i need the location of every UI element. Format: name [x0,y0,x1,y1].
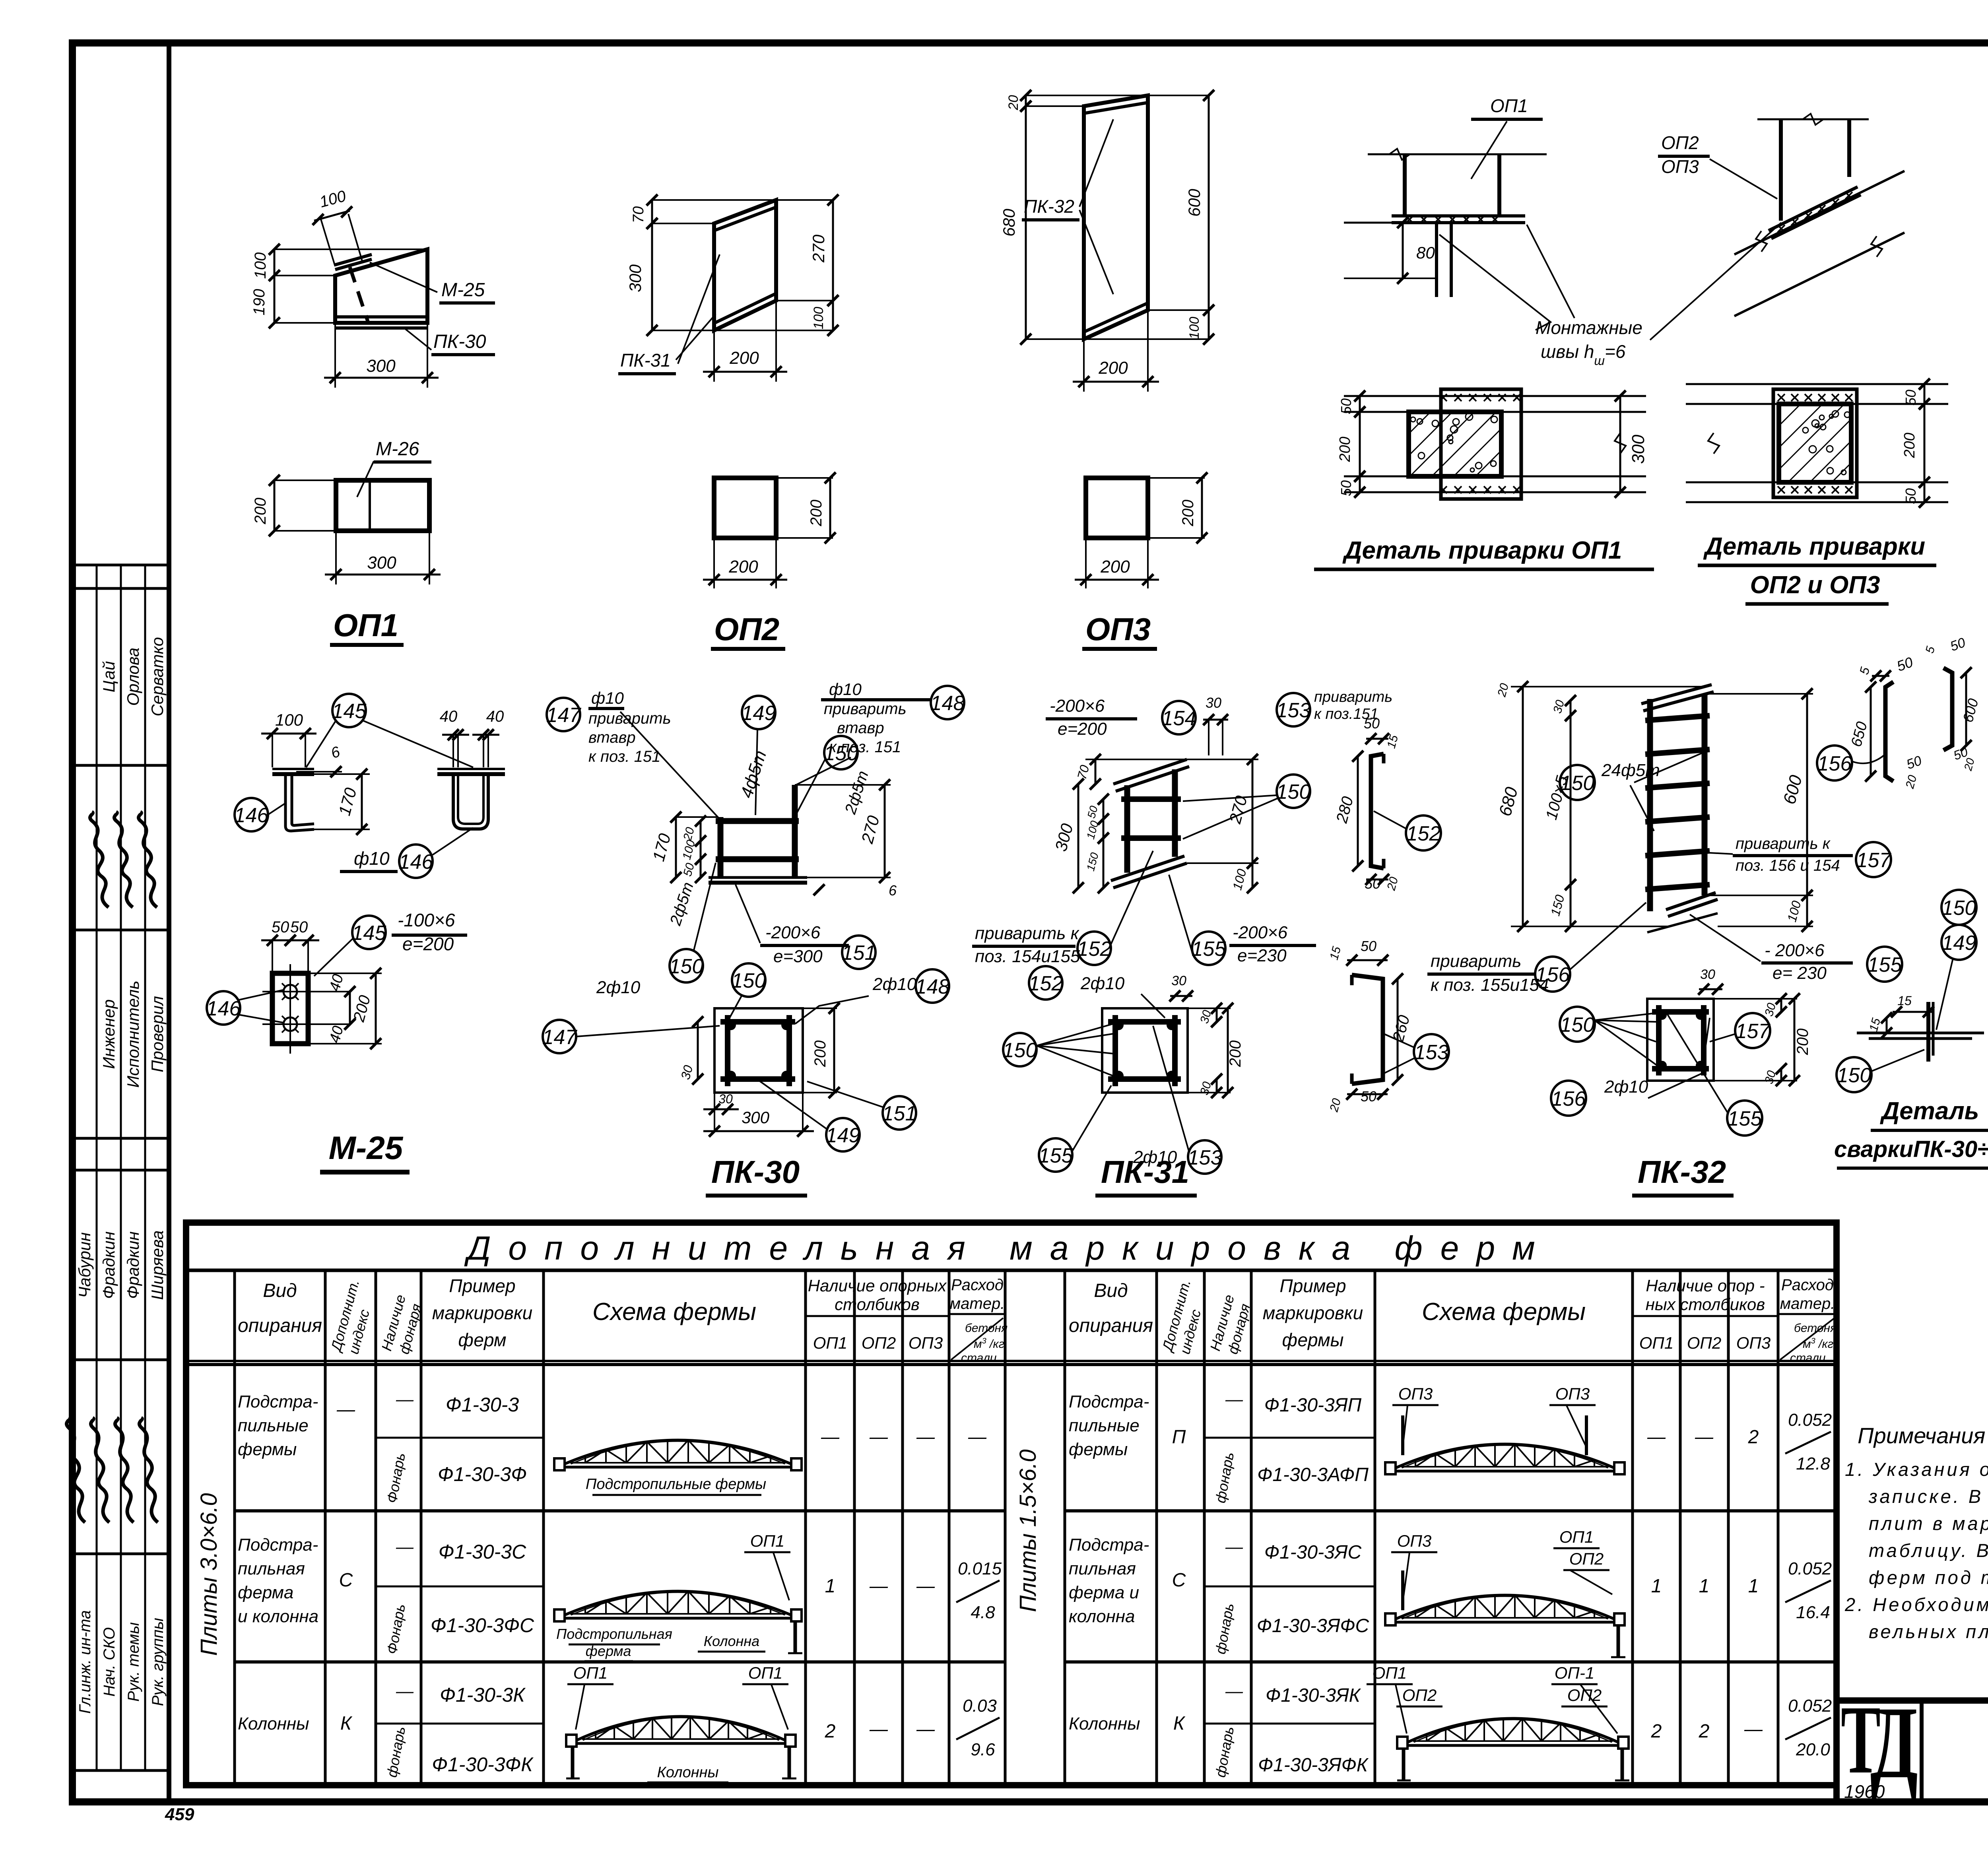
svg-text:147: 147 [542,1026,578,1049]
svg-text:поз. 156 и 154: поз. 156 и 154 [1736,857,1840,874]
svg-text:ферма: ферма [238,1583,293,1602]
label М-25 [370,262,437,292]
left strip cells [72,564,169,567]
svg-text:20: 20 [1006,95,1021,111]
svg-text:колонна: колонна [1069,1607,1135,1626]
svg-text:30: 30 [1171,973,1186,988]
svg-text:146: 146 [234,804,269,827]
svg-text:ОП1: ОП1 [1490,95,1528,116]
svg-text:С: С [1172,1570,1186,1591]
svg-text:156: 156 [1536,963,1570,986]
svg-text:e=230: e=230 [1237,946,1287,965]
ПК-31 plan callouts [1029,966,1062,1000]
svg-text:50: 50 [1903,488,1919,504]
svg-text:ОП3: ОП3 [1085,611,1151,647]
svg-text:150: 150 [824,742,858,765]
svg-text:e=300: e=300 [773,947,823,966]
svg-text:0.03: 0.03 [963,1696,997,1716]
svg-text:200: 200 [1794,1029,1811,1056]
svg-text:Ф1-30-3ФК: Ф1-30-3ФК [432,1753,534,1776]
svg-text:Монтажные: Монтажные [1536,317,1642,338]
svg-text:ОП3: ОП3 [909,1334,943,1352]
dim 100 М-25 [261,733,316,735]
svg-text:Наличие опорных: Наличие опорных [808,1276,947,1295]
svg-text:0.015: 0.015 [958,1559,1002,1578]
svg-text:156: 156 [1817,752,1852,775]
svg-text:150: 150 [1560,772,1595,795]
svg-text:—: — [1744,1718,1763,1739]
svg-text:200: 200 [729,348,759,368]
svg-text:300: 300 [367,553,396,573]
svg-text:Вид: Вид [1094,1280,1128,1301]
svg-text:50: 50 [1361,938,1376,954]
ПК-32 dims left [1511,686,1702,687]
svg-text:Ф1-30-3: Ф1-30-3 [446,1394,519,1416]
svg-text:ПК-31: ПК-31 [1101,1154,1189,1190]
truss schematic [565,1617,791,1620]
svg-text:2: 2 [825,1721,836,1742]
svg-text:1: 1 [1699,1576,1710,1597]
М-25 right U-figure [437,768,505,770]
svg-text:1: 1 [1651,1576,1662,1597]
svg-text:ф10: ф10 [354,848,390,869]
svg-text:ОП3: ОП3 [1555,1384,1590,1403]
dims right ОП3 [1148,95,1209,96]
svg-text:1. Указания об основной маркир: 1. Указания об основной маркировке ферм … [1845,1459,1988,1480]
svg-text:—: — [821,1426,840,1447]
svg-text:9.6: 9.6 [971,1740,995,1759]
svg-text:ф10: ф10 [829,680,862,699]
svg-text:- 200×6: - 200×6 [1765,941,1825,960]
svg-text:146: 146 [206,997,241,1020]
ПК-32 plan callouts [1560,1007,1595,1042]
svg-text:4.8: 4.8 [971,1603,995,1622]
svg-text:155: 155 [1728,1107,1763,1130]
ПК-32 plan dims [1699,988,1722,990]
svg-text:2ф10: 2ф10 [1080,974,1125,993]
callout 145 plate [352,916,386,949]
figure ОП2 square [714,478,776,538]
svg-text:ПК-30: ПК-30 [711,1154,800,1190]
ПК-31 callout 150 [1277,775,1310,808]
plate under ОП1 elevation [1392,214,1525,217]
svg-text:Ф1-30-3ЯП: Ф1-30-3ЯП [1264,1395,1362,1416]
svg-text:150: 150 [1003,1039,1037,1062]
svg-text:150: 150 [1276,780,1311,804]
svg-text:Колонны: Колонны [1069,1714,1140,1734]
svg-text:50: 50 [1361,1088,1376,1105]
figure ОП2 parallelogram ПК-31 [714,200,776,330]
ПК-32 ladder cage [1647,699,1653,911]
svg-text:—: — [1225,1537,1243,1557]
svg-text:100: 100 [811,307,826,330]
svg-text:опирания: опирания [238,1315,322,1336]
dims ОП3 square [1148,477,1205,479]
figure ОП1 trapezoid М-25/ПК-30 [335,249,427,323]
svg-text:Примечания: Примечания [1858,1423,1985,1448]
ПК-30 cage elevation [792,785,798,877]
ПК-30 plan dims [697,1022,699,1079]
svg-text:ОП3: ОП3 [1736,1334,1771,1352]
svg-text:Чабурин: Чабурин [75,1232,94,1298]
svg-text:ОП2: ОП2 [1569,1549,1604,1568]
svg-text:Ф1-30-3ЯС: Ф1-30-3ЯС [1264,1542,1362,1563]
callout 146 М-25 left [235,798,268,831]
dim 100 slanted ОП1 [314,211,350,221]
ПК-30 callout 149 [742,696,775,729]
svg-text:маркировки: маркировки [432,1303,532,1323]
svg-text:—: — [869,1718,888,1739]
ПК-31 155 plate label [1192,932,1225,965]
svg-text:152: 152 [1077,938,1112,961]
svg-text:ОП2: ОП2 [714,611,779,647]
figure ОП3 tall parallelogram ПК-32 [1084,95,1148,339]
svg-text:ОП1: ОП1 [573,1664,608,1682]
svg-text:Подстра-: Подстра- [1069,1392,1149,1411]
svg-text:12.8: 12.8 [1796,1454,1830,1473]
svg-text:ОП1: ОП1 [333,608,398,643]
svg-text:пильные: пильные [238,1416,309,1435]
svg-text:156: 156 [1551,1087,1586,1110]
svg-text:—: — [396,1390,414,1409]
svg-text:200: 200 [812,1041,829,1068]
svg-text:100: 100 [252,252,269,279]
svg-text:—: — [1225,1390,1243,1409]
svg-text:149: 149 [826,1124,860,1147]
ПК-32 channel 157 section [1943,668,1952,750]
ПК-32 callout 150 24ф5т [1560,765,1595,800]
svg-text:Ф1-30-3ЯФК: Ф1-30-3ЯФК [1258,1755,1369,1776]
svg-text:-200×6: -200×6 [1233,923,1288,942]
label ПК-30 [406,329,431,350]
svg-text:ОП3: ОП3 [1661,156,1699,177]
svg-text:приварить: приварить [588,710,671,727]
svg-text:опирания: опирания [1069,1315,1153,1336]
ПК-31 plan dims [1170,995,1192,997]
svg-text:Пример: Пример [449,1275,515,1296]
dims left ОП3 [1026,95,1148,96]
svg-text:1960: 1960 [1844,1781,1885,1802]
leaders to монтажные швы [1439,235,1551,330]
svg-text:Схема фермы: Схема фермы [1422,1298,1586,1326]
svg-text:Серватко: Серватко [148,637,167,716]
truss schematic [565,1466,791,1469]
callout 146 plate [207,991,240,1025]
svg-text:Колонны: Колонны [238,1714,309,1734]
svg-text:459: 459 [165,1805,194,1824]
svg-text:40: 40 [440,708,458,725]
long slant lines [1734,171,1905,254]
svg-text:Расход: Расход [951,1276,1004,1294]
svg-text:15: 15 [1897,994,1912,1008]
svg-text:ОП-1: ОП-1 [1555,1664,1594,1682]
concrete block ОП1 plan [1409,412,1501,476]
svg-text:1: 1 [1748,1576,1759,1597]
svg-text:152: 152 [1029,972,1063,995]
svg-text:П: П [1172,1427,1186,1448]
big table Дополнительная маркировка ферм [186,1223,1837,1785]
svg-text:фермы: фермы [1069,1440,1128,1459]
svg-text:Цай: Цай [99,661,118,693]
svg-text:70: 70 [630,206,647,223]
svg-text:пильная: пильная [1069,1559,1136,1578]
ПК-32 channel 156 section [1885,682,1893,781]
svg-text:2: 2 [1651,1721,1662,1742]
slanted plate ОП2/ОП3 [1769,187,1858,231]
svg-text:-200×6: -200×6 [765,923,821,942]
svg-text:2ф10: 2ф10 [872,975,917,994]
svg-text:ПК-31: ПК-31 [620,350,671,371]
svg-text:200: 200 [808,500,825,527]
svg-text:200: 200 [1227,1041,1244,1068]
svg-text:пильная: пильная [238,1559,305,1578]
ПК-31 channel 152 section [1371,754,1384,868]
truss schematic [1396,1621,1614,1624]
svg-text:0.052: 0.052 [1788,1410,1832,1430]
ПК-31 callout 153 top [1277,693,1310,726]
ПК-30 plan callouts [543,1020,576,1053]
svg-text:Подстра-: Подстра- [238,1535,318,1555]
svg-text:матер.: матер. [950,1295,1005,1312]
dims ОП2 square [776,477,833,479]
svg-text:Пример: Пример [1279,1275,1346,1296]
svg-text:ОП2 и ОП3: ОП2 и ОП3 [1750,571,1880,599]
strip signatures upper [90,812,109,907]
svg-text:фермы: фермы [238,1440,297,1459]
svg-text:Проверил: Проверил [148,996,167,1072]
big table row lines [235,1509,1005,1512]
svg-text:16.4: 16.4 [1796,1603,1830,1622]
svg-text:втавр: втавр [837,719,884,737]
title block [1837,1701,1988,1802]
big table column lines [233,1270,236,1785]
svg-text:200: 200 [1337,437,1353,462]
svg-text:80: 80 [1416,243,1435,262]
svg-text:20.0: 20.0 [1796,1740,1830,1759]
dim 300 М-26 [335,531,337,584]
svg-text:ОП1: ОП1 [1373,1664,1407,1682]
big table header band [186,1269,1837,1272]
svg-text:—: — [968,1426,987,1447]
dims left ОП2 [652,199,776,201]
ПК-31 stirrup plan [1102,1008,1188,1093]
svg-text:приварить к: приварить к [975,924,1080,943]
svg-text:270: 270 [809,234,828,263]
svg-text:ОП1: ОП1 [813,1334,847,1352]
ПК-30 stirrup plan [714,1008,803,1093]
svg-text:600: 600 [1185,188,1204,217]
svg-text:Фрадкин: Фрадкин [99,1231,118,1299]
svg-text:поз. 154и155: поз. 154и155 [975,947,1080,966]
svg-text:2: 2 [1699,1721,1710,1742]
svg-text:153: 153 [1276,699,1311,722]
svg-text:—: — [916,1718,935,1739]
svg-text:Исполнитель: Исполнитель [124,980,142,1087]
dim 200 ОП2 [713,330,715,382]
svg-text:ОП2: ОП2 [1402,1686,1437,1704]
svg-text:Ф1-30-3С: Ф1-30-3С [439,1541,526,1563]
figure М-26 rectangle [336,480,429,531]
svg-text:Ф1-30-3К: Ф1-30-3К [440,1684,526,1706]
svg-text:Дополнительная маркировка ферм: Дополнительная маркировка ферм [464,1229,1552,1267]
svg-text:Подстра-: Подстра- [238,1392,318,1411]
svg-text:155: 155 [1192,938,1227,961]
svg-text:Вид: Вид [263,1280,297,1301]
dim 300 bottom ОП1 [334,323,336,388]
svg-text:100: 100 [1187,317,1202,340]
svg-text:стали: стали [961,1351,997,1365]
svg-text:м3 /кг: м3 /кг [1803,1337,1834,1351]
svg-text:147: 147 [546,704,582,727]
ПК-30 base plate [709,876,807,879]
svg-text:Ширяева: Ширяева [148,1230,167,1300]
svg-text:40: 40 [486,708,504,725]
svg-text:—: — [916,1426,935,1447]
svg-text:ных столбиков: ных столбиков [1646,1295,1765,1314]
svg-text:2. Необходимость в столбиках О: 2. Необходимость в столбиках ОП1,2,3 опр… [1844,1594,1988,1615]
svg-text:столбиков: столбиков [835,1295,920,1314]
М-25 plate with holes [289,964,291,1054]
truss schematic [1408,1744,1618,1747]
svg-text:Ф1-30-3АФП: Ф1-30-3АФП [1257,1464,1369,1485]
detail privarka ОП1 plan [1344,395,1646,397]
svg-text:150: 150 [669,955,704,978]
svg-text:ф10: ф10 [591,689,624,707]
svg-text:Подстропильная: Подстропильная [556,1626,672,1642]
svg-text:154: 154 [1162,707,1196,730]
svg-text:155: 155 [1039,1144,1074,1167]
dims 40 200 40 plate [349,992,351,1024]
svg-text:К: К [1173,1713,1186,1734]
svg-text:сваркиПК-30÷ПК32: сваркиПК-30÷ПК32 [1834,1136,1988,1162]
ПК-30 dims right [795,784,891,786]
svg-text:ОП3: ОП3 [1398,1384,1433,1403]
svg-text:50: 50 [272,918,289,936]
svg-text:Подстропильные фермы: Подстропильные фермы [586,1476,766,1493]
svg-text:приварить: приварить [824,700,907,718]
ПК-31 dims right [1187,759,1258,760]
svg-text:Нач. СКО: Нач. СКО [101,1627,118,1697]
svg-text:50: 50 [1338,398,1354,414]
svg-text:Орлова: Орлова [124,648,142,706]
svg-text:50: 50 [1338,480,1354,496]
left title strip divider [167,43,171,1802]
ПК-32 stirrup plan [1647,999,1714,1081]
svg-text:e=200: e=200 [1058,719,1107,739]
svg-text:30: 30 [718,1092,733,1106]
М-25 detail left T-figure [272,768,314,770]
svg-text:М-25: М-25 [441,280,485,301]
svg-text:680: 680 [1000,208,1018,237]
svg-text:Расход: Расход [1781,1276,1834,1294]
svg-text:30: 30 [1206,695,1221,711]
svg-text:0.052: 0.052 [1788,1696,1832,1716]
svg-text:Инженер: Инженер [99,999,118,1069]
svg-text:2ф10: 2ф10 [1604,1077,1648,1097]
truss schematic [577,1742,785,1745]
svg-text:приварить: приварить [1314,689,1392,705]
svg-text:148: 148 [915,975,950,998]
svg-text:145: 145 [352,922,387,945]
svg-text:ОП1: ОП1 [1639,1334,1673,1352]
svg-text:к поз. 151: к поз. 151 [588,748,660,765]
svg-text:м3 /кг: м3 /кг [974,1337,1005,1351]
svg-text:145: 145 [332,700,367,723]
svg-text:—: — [1225,1681,1243,1701]
svg-text:приварить: приварить [1431,951,1521,971]
svg-text:-100×6: -100×6 [398,910,455,930]
dims 50 200 50 left [1359,396,1361,412]
svg-text:—: — [396,1537,414,1557]
svg-text:-200×6: -200×6 [1050,696,1105,716]
ПК-31 cage [1113,759,1187,784]
dims 50 50 plate [261,940,301,942]
dims right ОП2 [776,199,833,201]
svg-text:Деталь приварки ОП1: Деталь приварки ОП1 [1342,537,1622,564]
svg-text:50: 50 [1364,715,1380,732]
dims 40 40 М-25 U [442,734,469,736]
svg-text:—: — [1647,1426,1666,1447]
svg-text:300: 300 [1629,435,1648,464]
svg-text:Наличие опор -: Наличие опор - [1646,1276,1765,1295]
svg-text:150: 150 [732,969,766,992]
svg-text:30: 30 [1700,967,1715,982]
svg-text:ПК-32: ПК-32 [1638,1154,1726,1190]
svg-text:1: 1 [825,1576,836,1597]
svg-text:ОП2: ОП2 [1661,132,1699,153]
svg-text:0.052: 0.052 [1788,1559,1832,1578]
svg-text:200: 200 [1179,500,1197,527]
svg-text:153: 153 [1188,1146,1222,1169]
dims right ОП2 ОП3 plan [1924,384,1926,404]
svg-text:200: 200 [252,498,269,525]
svg-text:ОП1: ОП1 [1559,1528,1594,1546]
svg-text:153: 153 [1414,1041,1449,1064]
svg-text:ОП2: ОП2 [1687,1334,1721,1352]
svg-text:плит в марки ферм вводятся до: плит в марки ферм вводятся дополнительны… [1869,1513,1988,1534]
ПК-30 callout 148 with note [931,686,964,719]
svg-text:151: 151 [882,1102,917,1125]
ПК-30 callout 150 [824,736,858,769]
svg-text:151: 151 [842,942,876,965]
dim 6 and 170 М-25 [296,771,342,773]
dim 200 М-26 [274,479,336,481]
svg-text:приварить к: приварить к [1736,835,1831,852]
Деталь сварки figure [1857,1032,1984,1035]
callout 145 М-25 [332,694,366,727]
svg-text:Схема фермы: Схема фермы [592,1298,756,1326]
svg-text:2ф10: 2ф10 [596,978,641,997]
svg-text:Колонна: Колонна [704,1633,759,1649]
svg-text:ферма и: ферма и [1069,1583,1139,1602]
svg-text:Рук. темы: Рук. темы [125,1622,142,1702]
svg-text:200: 200 [728,557,758,577]
svg-text:300: 300 [366,356,396,376]
svg-text:200: 200 [1098,358,1128,378]
svg-text:ферм: ферм [458,1330,506,1350]
svg-text:Ф1-30-3Ф: Ф1-30-3Ф [438,1463,527,1485]
svg-text:К: К [340,1713,353,1734]
svg-text:—: — [869,1575,888,1596]
svg-text:Фрадкин: Фрадкин [124,1231,142,1299]
svg-text:Плиты 1.5×6.0: Плиты 1.5×6.0 [1015,1449,1041,1612]
svg-text:ферма: ферма [586,1643,631,1659]
dim 300 right [1619,396,1621,492]
figure ОП3 square [1086,478,1148,538]
svg-text:e= 230: e= 230 [1773,963,1827,983]
svg-text:к поз. 155и154: к поз. 155и154 [1431,975,1549,995]
detail privarka ОП1 elevation [1368,153,1547,155]
